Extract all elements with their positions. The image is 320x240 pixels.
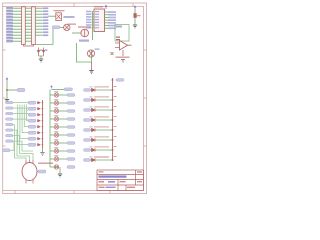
transistor rows left column (54, 93, 58, 169)
junction dots right bus (112, 89, 114, 161)
ground GND7 (58, 174, 62, 177)
net label pins (40, 50, 43, 51)
green box U3 (115, 25, 129, 42)
ports column left (6, 101, 14, 142)
label Q1 (95, 49, 100, 50)
labels left column (67, 94, 75, 169)
wire Char down (52, 29, 54, 45)
junction X1 (111, 52, 114, 55)
ground GND5 (5, 100, 9, 103)
wire bottom left (10, 141, 14, 150)
wire Q1 emitter (91, 62, 93, 70)
net label top (64, 88, 73, 91)
net label SW1 (38, 170, 46, 173)
encoder SW1 (22, 163, 37, 181)
diode array D1-D8 (38, 101, 41, 146)
IC U2 (94, 9, 105, 32)
label U2 ref (94, 6, 103, 7)
staircase wires (13, 103, 33, 161)
right column ports (84, 89, 91, 162)
port Char (52, 26, 60, 29)
wire J1-J2 (25, 8, 31, 41)
label SW1 value (38, 163, 53, 164)
power port P1 (134, 6, 136, 9)
bus right column (112, 78, 114, 160)
mid labels column (28, 101, 36, 146)
wire pot left (72, 32, 81, 34)
label LS1 (68, 24, 76, 25)
wire op-amp in (115, 43, 132, 48)
diode D11 vertical (42, 48, 44, 57)
net label NTCpath (64, 16, 75, 18)
wire SW1 label (37, 171, 38, 173)
port VIN (17, 88, 25, 91)
U2 pin names (95, 11, 99, 28)
row wires left column (50, 95, 67, 167)
wire diode bus down (42, 148, 44, 152)
power ticks right bus (114, 87, 117, 157)
wire J1 left (13, 8, 22, 41)
junction left rail (6, 89, 8, 91)
ref labels left column (54, 91, 59, 156)
op-amp U3A (120, 41, 128, 51)
junction dots diode bus (42, 102, 44, 146)
sheet border inner (3, 7, 144, 191)
power flag VCC U2 (105, 5, 107, 9)
diodes right column (92, 88, 96, 161)
wire P1 (134, 9, 136, 25)
ground GND2 (133, 25, 137, 28)
net label MPush (79, 40, 89, 42)
potentiometer RV1 (81, 29, 89, 37)
wires right column (91, 90, 113, 160)
power port P2 left rail (6, 78, 8, 81)
title block frame (97, 170, 144, 191)
wire op-amp out down (122, 50, 124, 56)
diode D10 vertical (37, 48, 39, 57)
wire bottom bracket J1-J2 (24, 45, 34, 47)
encoder pins bottom (26, 180, 33, 184)
value labels right column (94, 86, 109, 157)
wire bus U2 left (93, 12, 95, 41)
wire Q1 base loop (77, 43, 92, 62)
ground GND4 (89, 71, 93, 74)
label LM393 (116, 57, 130, 58)
wire to port (7, 89, 17, 91)
ref labels right column (90, 86, 93, 157)
ground GND1 (39, 59, 43, 62)
connector J2 (32, 7, 36, 45)
sheet background (0, 0, 149, 198)
wire to thermistor (48, 15, 56, 17)
wire left bus bottom (59, 167, 61, 174)
buzzer LS1 (64, 24, 70, 30)
junction bus top (112, 79, 114, 81)
ground GND6 (40, 153, 44, 156)
connector J1 left net labels (7, 7, 13, 42)
label U3 (116, 26, 122, 28)
wire to ground (39, 56, 44, 59)
label R8 (137, 15, 141, 16)
net labels U2 right (109, 11, 117, 29)
bus diode cathode (42, 100, 44, 148)
node labels right of J2 (43, 7, 49, 36)
label RV1 value (78, 26, 91, 27)
bus left column (49, 90, 51, 168)
label RT1 value (54, 10, 65, 11)
border zone ticks (3, 3, 147, 194)
wires U2 right (105, 12, 110, 28)
net label bus top (116, 79, 124, 82)
connector J1 (22, 7, 26, 45)
comparator pins (116, 37, 120, 41)
wire Char (60, 26, 63, 28)
port bottom left (3, 149, 11, 152)
net labels U2 left (86, 11, 92, 29)
power flag left column (51, 86, 53, 89)
sheet border outer (3, 3, 147, 194)
wire J2 right stubs (35, 8, 53, 44)
title block texts (99, 171, 143, 188)
transistor Q1 (87, 50, 94, 57)
thermistor RT1 (56, 13, 62, 21)
wire left rail (6, 81, 8, 99)
wire left column top (52, 89, 65, 91)
encoder pins top (26, 160, 33, 164)
resistor R8 (134, 14, 137, 18)
ground GND3 (121, 60, 125, 63)
